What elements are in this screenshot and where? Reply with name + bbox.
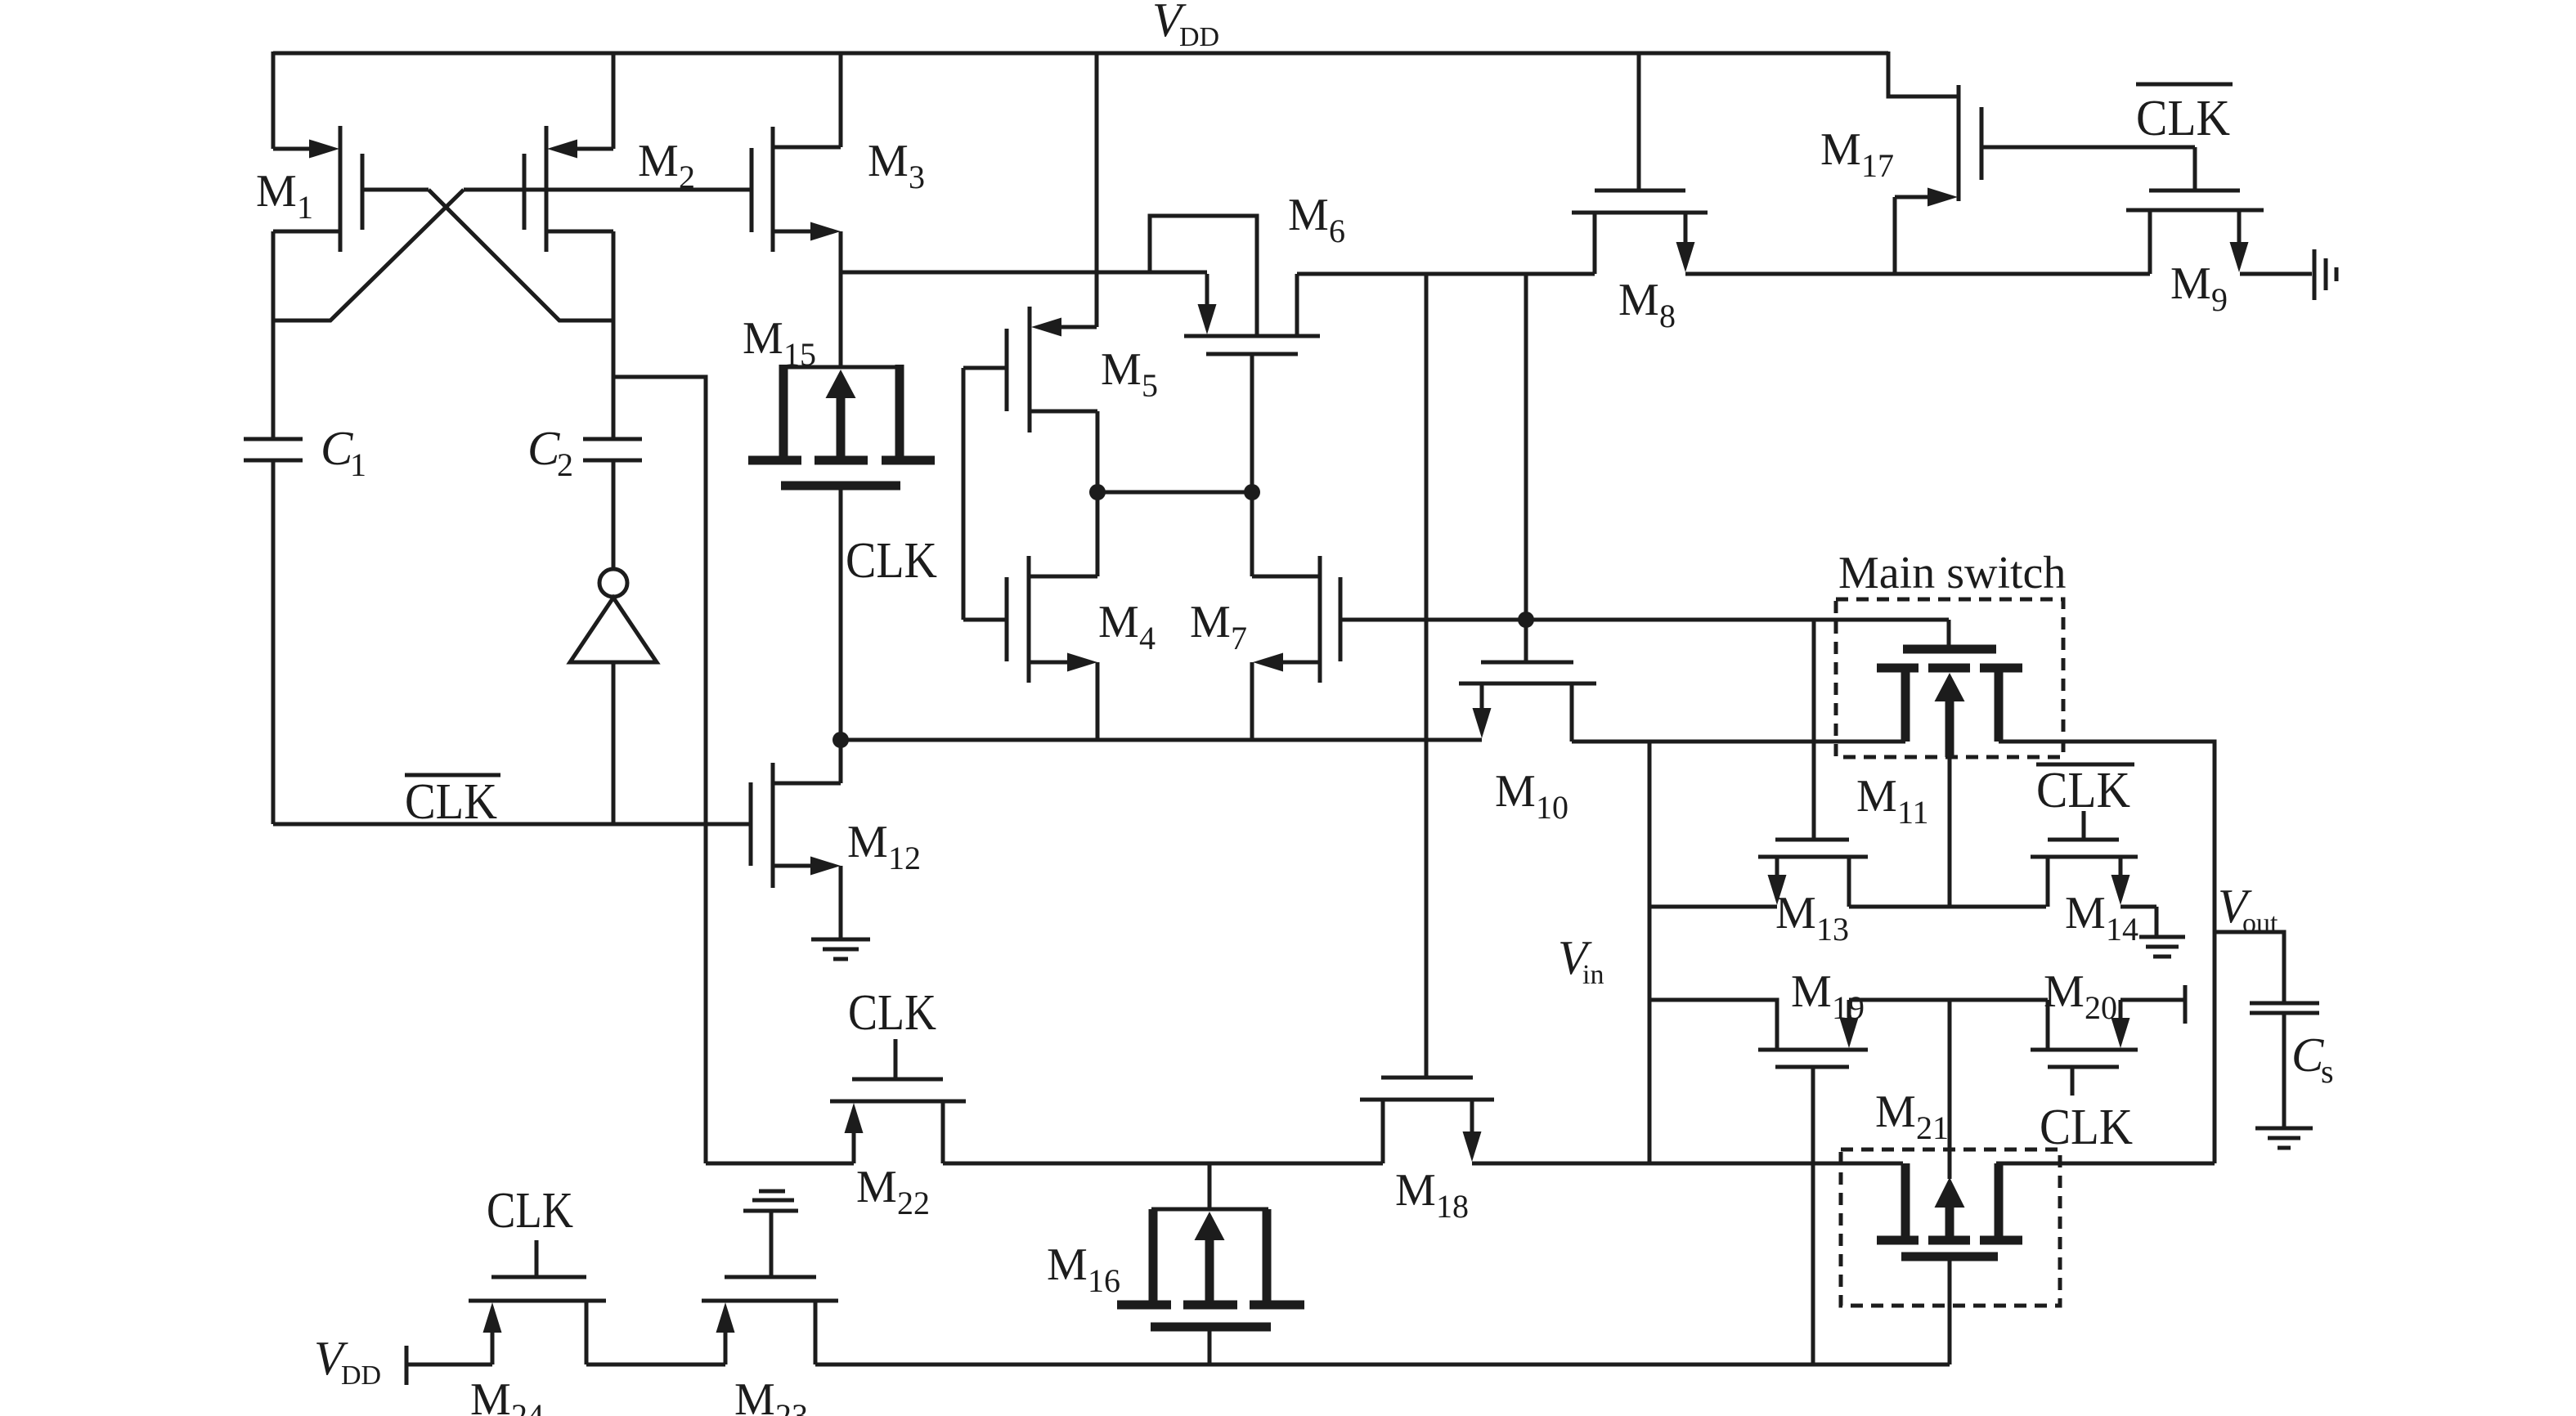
svg-text:20: 20 — [2085, 989, 2117, 1026]
svg-text:CLK: CLK — [487, 1183, 573, 1239]
svg-text:M: M — [1875, 1087, 1916, 1137]
svg-text:M: M — [1101, 344, 1142, 395]
wire M3/M15 node to M6 — [841, 271, 1207, 275]
svg-text:M: M — [743, 313, 783, 364]
transistor M9 — [2193, 147, 2197, 190]
transistor M19 — [1649, 1000, 1777, 1050]
svg-text:M: M — [1791, 966, 1832, 1017]
transistor M10 — [1524, 620, 1528, 662]
svg-text:3: 3 — [909, 159, 925, 195]
transistor M21 (main switch, thick) — [1948, 1000, 1952, 1179]
svg-text:M: M — [868, 136, 909, 186]
ground (M14 source) — [2139, 935, 2185, 939]
wire M9 source to ground — [2240, 272, 2312, 276]
svg-text:DD: DD — [341, 1360, 381, 1391]
transistor M1 — [272, 52, 276, 149]
wire VDD top rail — [273, 52, 1888, 56]
capacitor C2 — [583, 437, 642, 441]
transistor M14 — [2036, 763, 2134, 767]
svg-text:C: C — [321, 421, 353, 475]
node dot boost gate node — [1518, 612, 1534, 628]
svg-text:12: 12 — [888, 840, 921, 876]
wire cross-couple M2 gate to C1 node — [273, 190, 464, 320]
svg-text:C: C — [527, 421, 560, 475]
svg-text:M: M — [1288, 190, 1329, 240]
svg-text:M: M — [856, 1162, 897, 1212]
svg-text:8: 8 — [1659, 298, 1676, 334]
transistor M18 — [1381, 1076, 1473, 1080]
svg-text:CLK: CLK — [2036, 763, 2130, 818]
svg-text:CLK: CLK — [846, 533, 937, 589]
node VDD terminal (bottom left) — [405, 1346, 409, 1385]
svg-text:M: M — [2065, 888, 2106, 939]
wire C2 node branch to M22 drain — [613, 377, 706, 1163]
ground (Cs) — [2255, 1127, 2313, 1131]
transistor M15 (MOS cap) — [783, 365, 900, 370]
wire CLK node to M10 drain — [841, 738, 1482, 742]
node dot B — [1244, 484, 1260, 500]
transistor M16 (MOS cap) — [1208, 1163, 1212, 1209]
wire dashed box (main switch M11) — [1836, 599, 2063, 757]
transistor M12 — [839, 740, 843, 783]
transistor M5 — [1095, 52, 1099, 327]
transistor M3 — [839, 52, 843, 147]
svg-text:17: 17 — [1861, 147, 1894, 184]
transistor M4 — [963, 618, 1007, 622]
node CLKbar label — [405, 773, 500, 777]
svg-text:1: 1 — [297, 189, 313, 226]
svg-text:M: M — [256, 166, 297, 217]
wire M10 gate to M6/M8 node — [1524, 274, 1528, 620]
svg-text:1: 1 — [350, 446, 366, 483]
node dot A — [1089, 484, 1106, 500]
transistor M13 — [1812, 620, 1816, 840]
svg-text:M: M — [1190, 597, 1231, 648]
svg-text:M: M — [2044, 966, 2085, 1017]
svg-text:6: 6 — [1329, 213, 1345, 249]
svg-text:DD: DD — [1179, 22, 1219, 52]
capacitor Cs — [2215, 932, 2284, 1003]
svg-text:18: 18 — [1436, 1188, 1469, 1225]
svg-text:M: M — [638, 136, 679, 186]
svg-text:11: 11 — [1897, 794, 1929, 831]
svg-text:in: in — [1582, 960, 1604, 990]
svg-text:19: 19 — [1832, 989, 1865, 1026]
transistor M6 — [1184, 334, 1320, 338]
svg-text:9: 9 — [2211, 281, 2228, 318]
node CLKbar label (M17/M9 gates) — [2136, 83, 2233, 87]
transistor M20 — [2046, 1000, 2050, 1050]
node CLK junction dot — [832, 732, 849, 748]
svg-text:CLK: CLK — [2136, 91, 2230, 146]
svg-text:5: 5 — [1142, 367, 1158, 404]
ground (M12 source) — [811, 938, 870, 942]
svg-text:2: 2 — [557, 446, 573, 483]
svg-text:4: 4 — [1139, 620, 1156, 656]
svg-text:M: M — [847, 817, 888, 867]
wire Vin net vertical — [1648, 742, 1652, 1163]
capacitor C1 — [244, 437, 303, 441]
ground (M9 source, rotated) — [2313, 249, 2317, 300]
transistor M8 — [1637, 52, 1641, 190]
wire Vout net — [1999, 742, 2215, 1163]
svg-text:2: 2 — [679, 159, 695, 195]
svg-text:22: 22 — [897, 1185, 930, 1221]
svg-text:M: M — [1047, 1239, 1088, 1290]
svg-text:M: M — [1495, 766, 1536, 817]
svg-text:7: 7 — [1231, 620, 1247, 656]
svg-text:M: M — [2170, 258, 2211, 309]
svg-text:M: M — [1395, 1165, 1436, 1216]
wire M6 source to M8 drain — [1297, 272, 1595, 276]
wire cross-couple M1 gate to C2 node — [429, 190, 613, 320]
svg-text:CLK: CLK — [2040, 1100, 2133, 1155]
svg-text:10: 10 — [1536, 789, 1568, 826]
svg-text:16: 16 — [1088, 1262, 1120, 1299]
wire M18 gate (from M6/M8 node) — [1425, 274, 1429, 1078]
svg-text:CLK: CLK — [405, 774, 497, 830]
svg-text:M: M — [1820, 124, 1861, 175]
svg-text:24: 24 — [511, 1397, 544, 1416]
svg-text:M: M — [1618, 275, 1659, 325]
svg-text:M: M — [470, 1374, 511, 1416]
wire bottom rail — [406, 1363, 492, 1367]
svg-text:Main switch: Main switch — [1838, 548, 2066, 598]
svg-text:15: 15 — [783, 336, 816, 373]
wire node A to node B — [1097, 491, 1252, 495]
wire Vin to M13 drain — [1649, 905, 1777, 909]
svg-text:M: M — [1098, 597, 1139, 648]
svg-text:C: C — [2291, 1028, 2324, 1082]
svg-text:21: 21 — [1916, 1109, 1949, 1146]
wire dashed box (main switch M21) — [1841, 1149, 2060, 1306]
wire boost bottom plate row — [706, 1162, 854, 1166]
ground (M23 gate, inverted) — [759, 1190, 785, 1194]
transistor M2 — [612, 52, 616, 149]
transistor M7 — [1318, 556, 1322, 683]
wire CLKbar net (C1 bottom to M12 gate) — [273, 822, 751, 827]
svg-text:23: 23 — [775, 1397, 808, 1416]
svg-text:13: 13 — [1816, 911, 1849, 948]
svg-text:14: 14 — [2106, 911, 2138, 948]
svg-text:CLK: CLK — [848, 985, 936, 1041]
svg-text:M: M — [1775, 888, 1816, 939]
wire M8 source to M9 drain — [1685, 272, 2150, 276]
inverter (CLKbar to CLK) — [612, 460, 616, 568]
svg-text:s: s — [2321, 1053, 2334, 1090]
svg-text:M: M — [1856, 771, 1897, 822]
transistor M11 (main switch, thick) — [1947, 620, 1951, 647]
svg-text:M: M — [734, 1374, 775, 1416]
transistor M17 — [1888, 52, 1959, 96]
